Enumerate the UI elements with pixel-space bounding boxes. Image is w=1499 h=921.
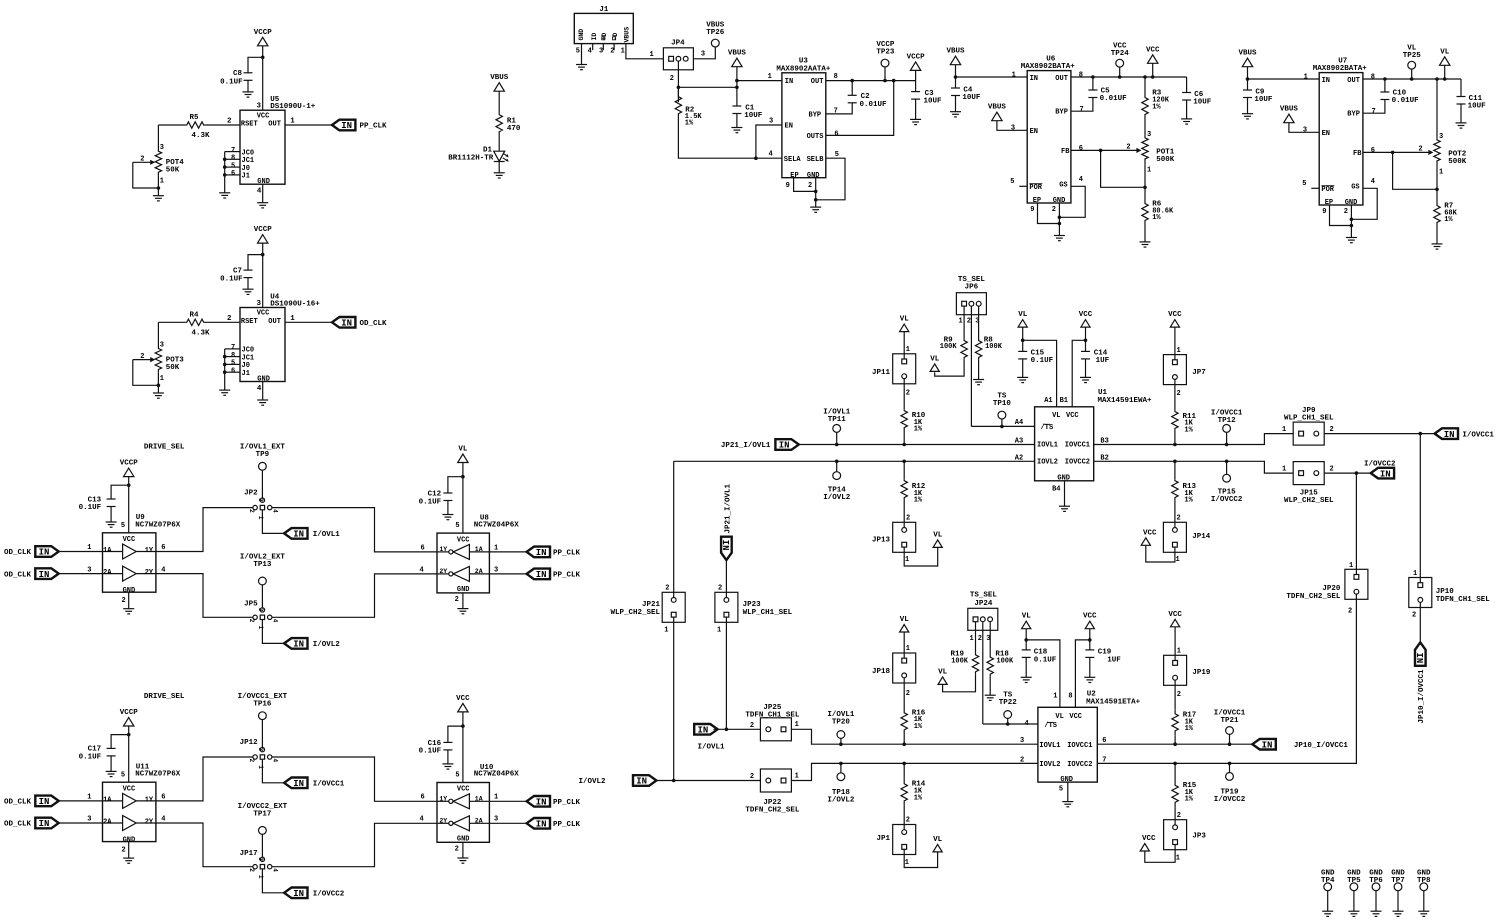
svg-text:C2: C2 [861, 93, 871, 101]
svg-text:JP12: JP12 [240, 739, 259, 747]
ground [1346, 238, 1357, 243]
svg-text:10UF: 10UF [962, 94, 981, 102]
junction [223, 173, 227, 177]
svg-text:POR: POR [1321, 186, 1334, 194]
wire FB [1363, 151, 1393, 153]
svg-text:TDFN_CH1_SEL: TDFN_CH1_SEL [1436, 596, 1491, 604]
ground [1322, 911, 1333, 916]
svg-text:2: 2 [808, 182, 812, 190]
svg-text:2: 2 [122, 597, 126, 605]
svg-text:JP13: JP13 [872, 536, 891, 544]
wire inv B in stub [469, 573, 489, 575]
test point TP19 I/OVCC2 [1226, 773, 1234, 781]
IC U6 MAX8902BATA+ [1027, 71, 1071, 203]
wire cap to ground [1247, 98, 1249, 114]
ground [1021, 677, 1032, 682]
svg-text:I/OVL2: I/OVL2 [578, 778, 606, 786]
test point TP25 VL [1408, 61, 1416, 69]
ground [1140, 242, 1151, 247]
ground [1456, 123, 1467, 128]
power VCC [1140, 844, 1149, 852]
wire out to cap [1384, 79, 1386, 92]
wire GND pin [262, 184, 264, 203]
jumper JP20 TDFN_CH2_SEL [1345, 569, 1368, 599]
svg-text:3: 3 [494, 816, 498, 824]
capacitor [1085, 650, 1094, 658]
svg-text:1: 1 [1282, 466, 1286, 474]
svg-text:IOVL2: IOVL2 [1039, 761, 1060, 769]
ground [243, 92, 254, 97]
wire to cap [111, 735, 129, 749]
wire R9 to VL [935, 359, 964, 376]
svg-text:/TS: /TS [1044, 722, 1057, 730]
svg-text:1A: 1A [103, 547, 112, 555]
svg-text:3: 3 [494, 566, 498, 574]
wire jumper B to flag [262, 869, 284, 893]
svg-text:IN: IN [1380, 469, 1391, 479]
svg-text:VBUS: VBUS [946, 48, 965, 56]
svg-text:IN: IN [1414, 652, 1424, 663]
svg-text:OUT: OUT [811, 78, 824, 86]
wire cap to ground [247, 278, 249, 290]
svg-text:0.01UF: 0.01UF [860, 101, 888, 109]
junction [902, 443, 906, 447]
wire to JP20 [1355, 473, 1357, 577]
wire VCC to JP7 [1174, 327, 1176, 362]
wire R19 to VL [943, 674, 976, 692]
junction [223, 355, 227, 359]
power VL [930, 364, 939, 372]
wire JP19 to R17 [1174, 678, 1176, 710]
svg-text:2Y: 2Y [439, 568, 447, 575]
wire OUT net [826, 80, 916, 82]
wire R16 to row [903, 735, 905, 745]
ground [457, 609, 468, 614]
wire buf A in stub [103, 551, 123, 553]
test point TP24 VCC [1116, 59, 1124, 67]
junction [677, 86, 681, 90]
resistor [1172, 709, 1178, 735]
wiper [133, 359, 151, 361]
wire buf B to jumper row [156, 574, 255, 618]
power VCC [1171, 619, 1180, 627]
junction [1024, 638, 1028, 642]
resistor [186, 122, 205, 128]
svg-text:VCC: VCC [456, 695, 470, 703]
wire EP [794, 178, 816, 192]
wire JC bus [225, 174, 240, 176]
svg-text:VCC: VCC [1168, 311, 1182, 319]
svg-text:JP4: JP4 [671, 39, 685, 47]
wire TP20 stem [840, 738, 842, 744]
wire VL to JP11 [903, 332, 905, 361]
svg-text:U7: U7 [1338, 57, 1347, 65]
svg-text:OD_CLK: OD_CLK [4, 799, 32, 807]
potentiometer [1142, 135, 1148, 165]
svg-text:U1: U1 [1098, 389, 1108, 397]
resistor [675, 87, 681, 123]
svg-text:IN: IN [1262, 740, 1273, 750]
svg-text:1: 1 [1349, 562, 1353, 570]
svg-text:VBUS: VBUS [728, 50, 747, 58]
junction [223, 370, 227, 374]
ground [1054, 236, 1065, 241]
wire VBUS in [955, 65, 957, 88]
svg-text:1: 1 [795, 772, 799, 780]
svg-text:IN: IN [785, 78, 793, 86]
svg-text:3: 3 [257, 857, 264, 861]
svg-text:TP17: TP17 [253, 811, 271, 819]
svg-text:TP23: TP23 [876, 48, 895, 56]
svg-text:JP23: JP23 [743, 601, 762, 609]
wire TP stem A [261, 470, 263, 498]
svg-text:I/OVL2: I/OVL2 [827, 797, 855, 805]
wire C1 to ground [736, 114, 738, 128]
svg-text:U2: U2 [1087, 690, 1097, 698]
svg-text:VCC: VCC [257, 112, 270, 120]
jumper JP11 [893, 354, 916, 384]
svg-text:IN: IN [536, 798, 547, 808]
svg-text:VL: VL [930, 355, 940, 363]
svg-text:PP_CLK: PP_CLK [553, 799, 581, 807]
svg-text:2: 2 [248, 509, 255, 513]
svg-text:5: 5 [576, 47, 580, 55]
wire POR stub [1019, 185, 1027, 187]
wire FB to pot bottom [1393, 152, 1437, 189]
svg-text:IOVL2: IOVL2 [1037, 458, 1058, 466]
wire inv A in stub [469, 551, 489, 553]
svg-text:JP24: JP24 [974, 600, 993, 608]
wire IOVL1 row [799, 444, 1035, 446]
junction [1143, 75, 1147, 79]
power VCC [1170, 320, 1179, 328]
wire TP stem B [261, 585, 263, 608]
power VCC [1141, 538, 1150, 546]
svg-text:VL: VL [1018, 311, 1028, 319]
power VCC [1081, 320, 1090, 328]
junction [835, 443, 839, 447]
wire FB [1071, 149, 1101, 151]
svg-text:1Y: 1Y [145, 796, 154, 804]
svg-text:1: 1 [906, 645, 910, 653]
wire OUT net [1071, 76, 1187, 78]
junction [754, 156, 758, 160]
svg-text:8: 8 [1068, 692, 1072, 700]
wire EN branch [756, 125, 782, 158]
svg-text:0.1UF: 0.1UF [220, 276, 243, 284]
junction [127, 733, 131, 737]
svg-text:1%: 1% [1184, 497, 1193, 505]
resistor [1434, 204, 1440, 224]
svg-text:500K: 500K [1156, 156, 1175, 164]
net flag PP_CLK B [527, 569, 550, 580]
IC U9 NC7WZ07P6X [103, 533, 156, 592]
jumper JP10 TDFN_CH1_SEL [1409, 578, 1432, 608]
svg-text:GND: GND [807, 172, 820, 180]
IC U8 NC7WZ04P6X [437, 533, 489, 593]
junction [839, 742, 843, 746]
svg-text:3: 3 [701, 50, 705, 58]
wire VCCP col [915, 70, 917, 91]
junction [1435, 77, 1439, 81]
svg-text:4: 4 [272, 759, 279, 763]
capacitor [107, 748, 116, 756]
svg-text:GND: GND [1057, 474, 1070, 482]
svg-text:1: 1 [257, 875, 264, 879]
resistor [186, 319, 205, 325]
wire buf B to jumper row [156, 823, 255, 867]
svg-text:1%: 1% [1152, 214, 1161, 222]
IC U10 NC7WZ04P6X [437, 783, 489, 843]
wire TP10 stem [1001, 419, 1003, 426]
svg-text:IN: IN [293, 779, 304, 789]
svg-text:IN: IN [536, 820, 547, 830]
svg-text:1%: 1% [685, 120, 694, 128]
wire C3 to ground [915, 99, 917, 119]
svg-text:OUT: OUT [268, 121, 281, 129]
svg-text:NC7WZ07P6X: NC7WZ07P6X [135, 771, 181, 779]
svg-text:DS1090U-16+: DS1090U-16+ [270, 300, 320, 308]
svg-text:PP_CLK: PP_CLK [360, 123, 388, 131]
junction [814, 198, 818, 202]
svg-text:0.01UF: 0.01UF [1100, 95, 1128, 103]
svg-text:0.1UF: 0.1UF [419, 748, 442, 756]
junction [1088, 638, 1092, 642]
svg-text:JP10: JP10 [1436, 588, 1455, 596]
svg-text:DRIVE_SEL: DRIVE_SEL [144, 693, 185, 701]
svg-text:VBUS: VBUS [988, 104, 1007, 112]
wire flag to JP22 [656, 780, 761, 782]
wire wiper return [133, 162, 159, 188]
svg-text:MAX8902AATA+: MAX8902AATA+ [776, 65, 831, 73]
svg-text:3: 3 [257, 103, 262, 111]
wire to cap [111, 485, 129, 499]
svg-text:IN: IN [293, 640, 304, 650]
svg-text:VL: VL [1055, 713, 1063, 721]
svg-text:6: 6 [1079, 145, 1083, 153]
svg-text:50K: 50K [166, 364, 180, 372]
wire VCC to U1 pin B1 [1072, 340, 1085, 407]
svg-text:1: 1 [160, 375, 164, 383]
svg-text:10UF: 10UF [924, 98, 943, 106]
junction [1383, 77, 1387, 81]
svg-text:VCCP: VCCP [120, 709, 139, 717]
svg-text:8: 8 [231, 352, 235, 360]
svg-text:1Y: 1Y [145, 547, 154, 555]
svg-text:6: 6 [421, 794, 425, 802]
svg-text:4: 4 [1371, 178, 1375, 186]
svg-text:IOVCC2: IOVCC2 [1065, 458, 1090, 466]
ground [985, 695, 996, 700]
svg-text:J1: J1 [242, 173, 250, 181]
svg-text:JP21_I/OVL1: JP21_I/OVL1 [724, 483, 732, 533]
svg-text:6: 6 [1371, 147, 1375, 155]
svg-text:VCC: VCC [1079, 311, 1093, 319]
ground [910, 119, 921, 124]
svg-text:3: 3 [1439, 133, 1443, 141]
wire TP12 stem [1226, 432, 1228, 444]
wire pin5 J0 [225, 166, 240, 168]
svg-text:6: 6 [421, 544, 425, 552]
jumper JP23 [715, 592, 738, 622]
wire to JP10 [1419, 434, 1421, 585]
ground [1017, 377, 1028, 382]
ground [219, 390, 230, 395]
svg-text:POR: POR [1029, 184, 1042, 192]
svg-text:GND: GND [1060, 776, 1073, 784]
svg-text:100K: 100K [951, 658, 969, 666]
resistor [901, 779, 907, 806]
net flag PP_CLK A [527, 547, 550, 558]
svg-text:1: 1 [906, 346, 910, 354]
svg-text:TP13: TP13 [253, 561, 272, 569]
svg-text:1Y: 1Y [439, 546, 447, 553]
wire buf A to jumper row [156, 508, 255, 552]
power VCCP [258, 37, 268, 46]
junction [1225, 460, 1229, 464]
svg-text:VBUS: VBUS [1280, 106, 1299, 114]
inverter gate A [449, 550, 453, 554]
wire out cap to ground [1186, 100, 1188, 119]
svg-text:BYP: BYP [809, 111, 822, 119]
svg-text:1: 1 [257, 516, 264, 520]
svg-text:5: 5 [1059, 786, 1063, 794]
resistor [901, 708, 907, 735]
svg-text:VCC: VCC [1143, 529, 1157, 537]
svg-text:2: 2 [1412, 612, 1416, 620]
svg-text:4: 4 [420, 816, 424, 824]
ground [1348, 911, 1359, 916]
svg-text:SELB: SELB [807, 156, 825, 164]
svg-text:VCC: VCC [1146, 46, 1160, 54]
wire IOVCC1 row right [1094, 434, 1294, 445]
wire VCCP stem [128, 477, 130, 533]
net flag OD_CLK B [35, 818, 58, 829]
inverter gate B [449, 821, 453, 825]
svg-text:VCC: VCC [457, 536, 470, 544]
wire TP stem [1411, 69, 1413, 79]
wire IOVL2 row [674, 460, 1035, 462]
power VL [900, 324, 909, 332]
svg-text:OUT: OUT [268, 318, 281, 326]
net flag I/OVCC1 [284, 778, 307, 789]
svg-text:C19: C19 [1098, 649, 1112, 657]
svg-text:WLP_CH2_SEL: WLP_CH2_SEL [610, 609, 660, 617]
ground [123, 858, 134, 863]
junction [902, 742, 906, 746]
junction [461, 724, 465, 728]
capacitor [107, 499, 116, 507]
test point TP14 I/OVL2 [833, 472, 841, 480]
junction [1058, 222, 1062, 226]
wire jumper row to inverter A [270, 508, 437, 552]
wire TP stem [1119, 67, 1121, 77]
wire R8 to ground [978, 359, 980, 379]
junction [902, 762, 906, 766]
wire buf B out stub [136, 573, 156, 575]
wire OUT net [1363, 78, 1461, 80]
svg-text:VL: VL [1440, 48, 1450, 56]
net flag I/OVCC2 [1371, 468, 1394, 479]
wire VCCP to VCC pin [262, 243, 264, 307]
svg-text:2A: 2A [475, 818, 483, 825]
wire to cap [248, 255, 263, 271]
ground [576, 65, 587, 70]
svg-text:5: 5 [1010, 178, 1014, 186]
ground [1432, 244, 1443, 249]
junction [1225, 443, 1229, 447]
svg-text:JP3: JP3 [1192, 832, 1206, 840]
svg-text:1: 1 [664, 626, 668, 634]
svg-text:TP25: TP25 [1403, 52, 1422, 60]
wire R13 to JP14 [1174, 499, 1176, 530]
power VL [1440, 57, 1450, 66]
ground [243, 289, 254, 294]
wire TP23 stem [884, 67, 886, 81]
svg-text:2: 2 [665, 585, 669, 593]
svg-text:4: 4 [769, 151, 773, 159]
wire jumper A to flag [262, 760, 284, 783]
junction [839, 762, 843, 766]
power VCCP [258, 235, 268, 244]
wire VCCP stem [128, 726, 130, 782]
svg-text:IOVCC1: IOVCC1 [1065, 442, 1090, 450]
svg-text:1: 1 [257, 626, 264, 630]
svg-text:1UF: 1UF [1107, 656, 1121, 664]
svg-text:IOVCC1: IOVCC1 [1067, 742, 1092, 750]
jumper JP18 [893, 653, 916, 683]
svg-text:VCC: VCC [1083, 613, 1097, 621]
wiper [133, 161, 151, 163]
junction [1021, 339, 1025, 343]
wire JP15 to flag [1324, 472, 1371, 474]
svg-text:2: 2 [1330, 426, 1334, 434]
wire R18 to ground [989, 677, 991, 696]
jumper JP5 [253, 615, 257, 619]
wire gnd pin [462, 593, 464, 609]
svg-text:4: 4 [272, 509, 279, 513]
wire JP9 to flag [1324, 433, 1434, 435]
svg-text:5: 5 [1302, 180, 1306, 188]
svg-text:VL: VL [1052, 412, 1060, 420]
resistor [496, 113, 502, 133]
svg-text:2: 2 [122, 846, 126, 854]
svg-text:C7: C7 [233, 268, 242, 276]
wire pot bottom [1144, 165, 1146, 202]
wire TP18 stem [840, 763, 842, 772]
wire power stem [1444, 65, 1446, 79]
wire TP stem A [261, 720, 263, 748]
net flag I/OVCC2 [284, 888, 307, 899]
wire U1 gnd pin [1064, 481, 1066, 506]
svg-text:10UF: 10UF [1468, 103, 1487, 111]
wire OUTS tie [826, 81, 894, 136]
svg-text:1: 1 [1177, 648, 1181, 656]
svg-text:RSET: RSET [241, 121, 258, 129]
junction [883, 79, 887, 83]
svg-text:1: 1 [494, 794, 498, 802]
svg-text:EN: EN [1030, 128, 1038, 136]
wire power stem [1152, 63, 1154, 77]
wire JP1 to VL [904, 847, 937, 867]
svg-text:VCCP: VCCP [120, 460, 139, 468]
svg-text:OD_CLK: OD_CLK [4, 821, 32, 829]
svg-text:1A: 1A [475, 546, 483, 553]
svg-text:JP2: JP2 [244, 490, 258, 498]
IC U11 NC7WZ07P6X [103, 782, 156, 841]
junction [1246, 77, 1250, 81]
wire JC bus down [224, 152, 226, 193]
